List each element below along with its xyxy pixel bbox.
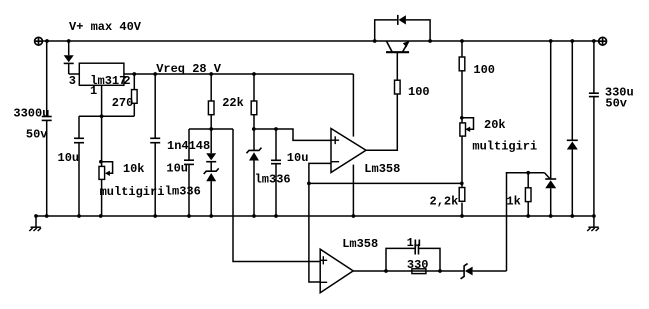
svg-text:lm336: lm336	[255, 173, 291, 187]
svg-text:multigiri: multigiri	[472, 139, 537, 153]
svg-text:1k: 1k	[506, 195, 520, 209]
svg-text:100: 100	[473, 63, 495, 77]
svg-text:lm317: lm317	[90, 74, 126, 88]
svg-text:Vreq 28 V: Vreq 28 V	[156, 62, 222, 76]
svg-text:270: 270	[112, 96, 134, 110]
svg-text:10k: 10k	[123, 162, 145, 176]
svg-text:3300u: 3300u	[13, 107, 49, 121]
svg-text:10u: 10u	[287, 151, 309, 165]
svg-text:1n4148: 1n4148	[167, 139, 210, 153]
svg-text:22k: 22k	[222, 96, 244, 110]
svg-text:20k: 20k	[484, 118, 506, 132]
svg-text:10u: 10u	[58, 151, 80, 165]
svg-text:V+ max 40V: V+ max 40V	[69, 20, 142, 34]
svg-text:1µ: 1µ	[407, 236, 421, 250]
svg-text:100: 100	[408, 85, 430, 99]
svg-text:2: 2	[123, 74, 130, 88]
svg-text:Lm358: Lm358	[342, 237, 378, 251]
svg-text:3: 3	[69, 74, 76, 88]
svg-text:50v: 50v	[26, 128, 48, 142]
svg-text:2,2k: 2,2k	[430, 195, 459, 209]
svg-text:330: 330	[407, 258, 429, 272]
svg-text:10u: 10u	[166, 161, 188, 175]
svg-text:multigiri: multigiri	[100, 185, 165, 199]
svg-text:Lm358: Lm358	[364, 162, 400, 176]
svg-text:50v: 50v	[605, 96, 627, 110]
svg-text:lm336: lm336	[165, 184, 201, 198]
